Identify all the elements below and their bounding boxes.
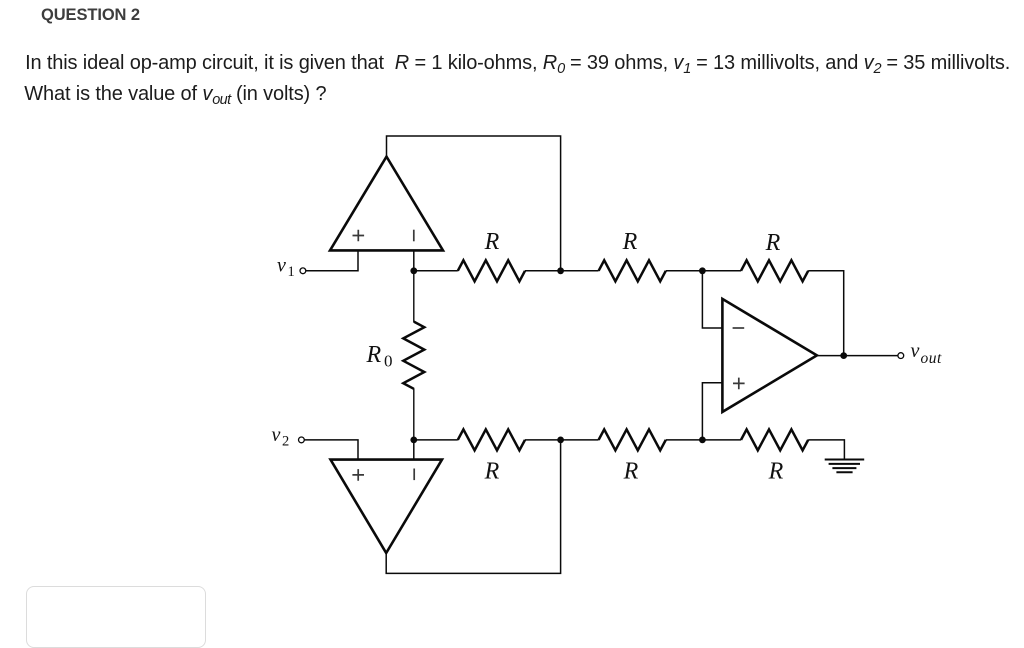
wire U2 -input pin xyxy=(413,440,415,460)
resistor R2 (top row, value R) xyxy=(599,260,666,281)
svg-text:out: out xyxy=(921,350,943,367)
svg-text:R: R xyxy=(622,229,638,255)
svg-text:v: v xyxy=(277,255,286,277)
wire R2 to R3 xyxy=(666,270,741,272)
svg-text:R: R xyxy=(623,459,639,485)
terminal vout xyxy=(898,353,904,359)
wire R1 to R2 xyxy=(525,270,599,272)
resistor R4 (bottom row, value R) xyxy=(458,429,525,450)
node D (U2 -input / R0 bottom) xyxy=(410,437,417,444)
svg-text:2: 2 xyxy=(282,434,289,450)
svg-text:v: v xyxy=(911,340,920,362)
wire R4 to R5 xyxy=(525,439,599,441)
wire U3 output to vout xyxy=(817,355,898,357)
wire node D to R4 xyxy=(414,439,458,441)
op-amp U3 (right, pointing right) xyxy=(722,299,817,412)
wire U1 +input stub to v1 xyxy=(306,250,358,270)
svg-text:R: R xyxy=(765,230,781,256)
op-amp U1 (top, pointing up) xyxy=(330,157,443,251)
wire node F up to U3 +input xyxy=(702,383,722,440)
svg-text:v: v xyxy=(272,424,281,446)
wire node A to R1 xyxy=(414,270,458,272)
terminal v2 xyxy=(299,437,305,443)
node F (U3 +input junction bottom) xyxy=(699,437,706,444)
svg-text:R: R xyxy=(484,459,500,485)
resistor R6 (bottom row, value R) xyxy=(741,429,808,450)
resistor R0 (middle vertical) xyxy=(403,271,424,440)
wire R3 to output node xyxy=(808,271,844,356)
wire U2 output loop (apex down and right to node) xyxy=(386,440,560,574)
resistor R1 (top row, value R) xyxy=(458,260,525,281)
wire node C down to U3 -input xyxy=(702,271,722,328)
node B (feedback junction top) xyxy=(557,267,564,274)
wire R6 to ground xyxy=(808,440,844,460)
op-amp U2 (bottom, pointing down) xyxy=(331,460,443,553)
svg-text:0: 0 xyxy=(384,352,393,371)
node E (U2 output junction bottom) xyxy=(557,437,564,444)
resistor R3 (top row, value R) xyxy=(741,260,808,281)
svg-text:R: R xyxy=(366,342,382,368)
svg-text:R: R xyxy=(484,229,500,255)
wire U1 -input pin xyxy=(413,250,415,270)
svg-text:R: R xyxy=(768,459,784,485)
svg-text:1: 1 xyxy=(288,264,295,280)
node G (output junction) xyxy=(840,352,847,359)
answer input box xyxy=(26,586,206,648)
wire U1 feedback loop (apex up and right to node) xyxy=(387,136,561,271)
node A (U1 -input / R0 top / R junction) xyxy=(410,267,417,274)
wire U2 +input stub to v2 xyxy=(304,440,358,460)
node C (U3 -input junction top) xyxy=(699,267,706,274)
wire R5 to R6 xyxy=(666,439,741,441)
terminal v1 xyxy=(300,268,306,274)
ground xyxy=(825,460,865,473)
resistor R5 (bottom row, value R) xyxy=(599,429,666,450)
